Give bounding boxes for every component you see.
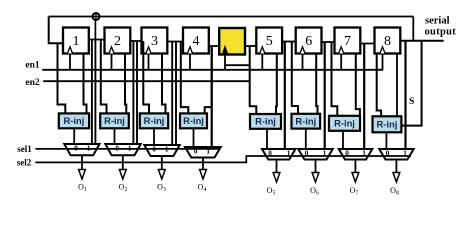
svg-text:R-inj: R-inj — [104, 115, 125, 126]
mux 3 — [144, 145, 179, 156]
svg-text:R-inj: R-inj — [144, 115, 165, 126]
wire bypass 3b to mux3 — [175, 42, 177, 147]
wire R-inj8 right input — [396, 53, 398, 117]
wire Q1 to D2 — [88, 39, 106, 41]
wire bypass 2a to mux2 — [132, 41, 134, 145]
wire bypass 7a to mux7 — [363, 44, 365, 151]
clock wire ff2 — [111, 53, 113, 70]
svg-text:O4: O4 — [198, 182, 207, 193]
R-inj block 8 — [373, 116, 402, 132]
R-inj block 3 — [140, 113, 168, 128]
xor gate X1 — [93, 13, 100, 20]
wire R-inj8 left input — [377, 53, 381, 117]
svg-text:sel1: sel1 — [17, 144, 32, 154]
wire R-inj1 output — [73, 128, 75, 145]
R-inj block 4 — [180, 113, 207, 128]
wire bypass 8a to mux8 — [404, 41, 406, 150]
flip-flop yellow injected cell — [219, 28, 245, 55]
svg-text:8: 8 — [384, 34, 391, 49]
output O4 wire and arrow — [202, 158, 204, 171]
clock wire ff4 — [189, 53, 191, 70]
wire R-inj5 output — [266, 129, 268, 150]
svg-text:0: 0 — [305, 150, 309, 158]
output O6 wire and arrow — [315, 160, 317, 174]
R-inj block 7 — [329, 116, 360, 131]
svg-text:3: 3 — [151, 34, 158, 49]
svg-text:1: 1 — [128, 145, 132, 153]
svg-text:O2: O2 — [119, 182, 128, 193]
svg-text:0: 0 — [115, 145, 119, 153]
wire R-inj4 left input — [181, 42, 189, 115]
clock wire ff5 — [261, 53, 263, 70]
svg-text:R-inj: R-inj — [295, 116, 316, 127]
wire top feedback — [49, 16, 414, 18]
wire S vertical — [401, 41, 421, 126]
wire R-inj3 left input — [143, 41, 149, 114]
svg-text:0: 0 — [268, 150, 272, 158]
svg-text:1: 1 — [362, 150, 366, 158]
wire en1 line — [42, 69, 383, 71]
svg-text:0: 0 — [194, 148, 198, 156]
wire bypass 3a to mux3 — [171, 42, 173, 147]
svg-text:R-inj: R-inj — [255, 116, 276, 127]
output O5 wire and arrow — [276, 160, 278, 174]
wire R-inj6 output — [305, 129, 307, 150]
wire R-inj6 left input — [292, 42, 298, 115]
svg-text:0: 0 — [152, 146, 156, 154]
wire en2 line — [43, 80, 249, 82]
mux 5 — [262, 149, 296, 160]
flip-flop 3 — [142, 28, 168, 54]
flip-flop 1 — [63, 28, 89, 54]
svg-text:1: 1 — [206, 148, 210, 156]
wire R-inj3 right input — [162, 53, 166, 114]
wire bypass 4a to mux4 — [211, 46, 213, 148]
wire Q7 to D8 — [359, 43, 375, 45]
mux 4 — [185, 147, 221, 158]
wire R-inj6 right input — [316, 53, 317, 115]
wire bypass 1b to mux1 — [94, 40, 96, 146]
svg-text:S: S — [409, 97, 414, 107]
wire R-inj4 output — [193, 128, 195, 148]
wire feedback right vertical — [412, 17, 414, 41]
svg-text:O5: O5 — [267, 186, 276, 197]
wire feedback left vertical — [49, 17, 64, 44]
output O7 wire and arrow — [354, 160, 356, 174]
wire serial output line — [400, 40, 443, 42]
wire Q4 to DY — [208, 45, 220, 47]
wire xor output drop — [94, 21, 96, 40]
svg-text:en2: en2 — [25, 78, 40, 88]
mux 6 — [298, 149, 333, 160]
svg-text:O8: O8 — [390, 186, 399, 197]
wire Q6 to D7 — [321, 41, 336, 43]
clock wire ff1 — [69, 53, 71, 70]
wire R-inj2 output — [114, 128, 116, 145]
svg-text:R-inj: R-inj — [183, 115, 204, 126]
svg-text:O1: O1 — [78, 182, 87, 193]
wire QY to D5 — [244, 45, 258, 47]
svg-text:R-inj: R-inj — [64, 115, 85, 126]
wire R-inj3 output — [153, 128, 155, 146]
wire bypass 1a to mux1 — [91, 40, 93, 146]
svg-text:1: 1 — [73, 34, 80, 49]
mux 2 — [105, 144, 141, 155]
svg-text:O6: O6 — [310, 186, 319, 197]
wire bypass 6a to mux6 — [324, 42, 326, 150]
wire bypass 5a to mux5 — [284, 42, 286, 151]
svg-text:O7: O7 — [350, 186, 359, 197]
flip-flop 6 — [296, 28, 322, 54]
clock wire ff3 — [148, 53, 150, 70]
flip-flop 8 — [375, 28, 401, 54]
wire yellow clock jog — [225, 64, 250, 66]
mux 1 — [64, 144, 99, 155]
R-inj block 2 — [100, 113, 129, 128]
svg-text:1: 1 — [323, 150, 327, 158]
wire R-inj2 left input — [101, 40, 107, 115]
clock wire ff8 — [382, 53, 384, 70]
wire R-inj8 output — [385, 132, 387, 150]
wire Q2 to D3 — [129, 40, 142, 42]
mux 8 — [379, 149, 414, 160]
wire R-inj7 left input — [332, 42, 338, 117]
svg-text:1: 1 — [87, 145, 91, 153]
svg-text:1: 1 — [287, 150, 291, 158]
R-inj block 5 — [250, 114, 281, 129]
svg-text:7: 7 — [344, 34, 351, 49]
svg-text:serial: serial — [425, 16, 450, 27]
wire R-inj7 output — [342, 131, 344, 150]
wire R-inj5 left input — [250, 46, 257, 115]
wire R-inj4 right input — [205, 46, 212, 114]
svg-text:6: 6 — [305, 34, 312, 49]
mux 7 — [339, 149, 373, 160]
flip-flop 7 — [335, 28, 361, 54]
wire sel2 line — [35, 156, 411, 162]
svg-text:R-inj: R-inj — [377, 119, 398, 130]
clock wire ff7 — [340, 53, 342, 70]
svg-text:output: output — [425, 27, 457, 38]
wire R-inj5 right input — [275, 53, 278, 115]
clock wire ffY — [224, 54, 226, 70]
flip-flop 4 — [183, 28, 209, 54]
wire bypass 2b to mux2 — [136, 41, 138, 145]
svg-text:1: 1 — [403, 150, 407, 158]
output O1 wire and arrow — [81, 155, 83, 170]
svg-text:O3: O3 — [157, 182, 166, 193]
wire sel1 line — [35, 148, 219, 150]
flip-flop 2 — [105, 28, 131, 54]
svg-text:2: 2 — [114, 34, 121, 49]
svg-text:0: 0 — [386, 150, 390, 158]
wire R-inj7 right input — [356, 53, 360, 117]
wire Q3 to D4 — [166, 41, 184, 43]
svg-text:0: 0 — [74, 145, 78, 153]
svg-text:5: 5 — [266, 34, 273, 49]
wire Q5 to D6 — [281, 41, 297, 43]
svg-text:sel2: sel2 — [17, 158, 32, 168]
svg-text:1: 1 — [165, 146, 169, 154]
output O3 wire and arrow — [161, 156, 163, 170]
output O8 wire and arrow — [395, 160, 397, 174]
flip-flop 5 — [256, 28, 282, 54]
R-inj block 1 — [59, 113, 89, 128]
svg-text:R-inj: R-inj — [334, 118, 355, 129]
clock wire ff6 — [302, 53, 304, 70]
svg-text:0: 0 — [345, 150, 349, 158]
wire R-inj2 right input — [125, 53, 126, 114]
svg-text:en1: en1 — [25, 61, 40, 71]
svg-text:4: 4 — [193, 34, 200, 49]
wire R-inj1 left input — [58, 43, 66, 114]
R-inj block 6 — [292, 114, 321, 129]
output O2 wire and arrow — [122, 155, 124, 170]
wire R-inj1 right input — [84, 53, 87, 114]
